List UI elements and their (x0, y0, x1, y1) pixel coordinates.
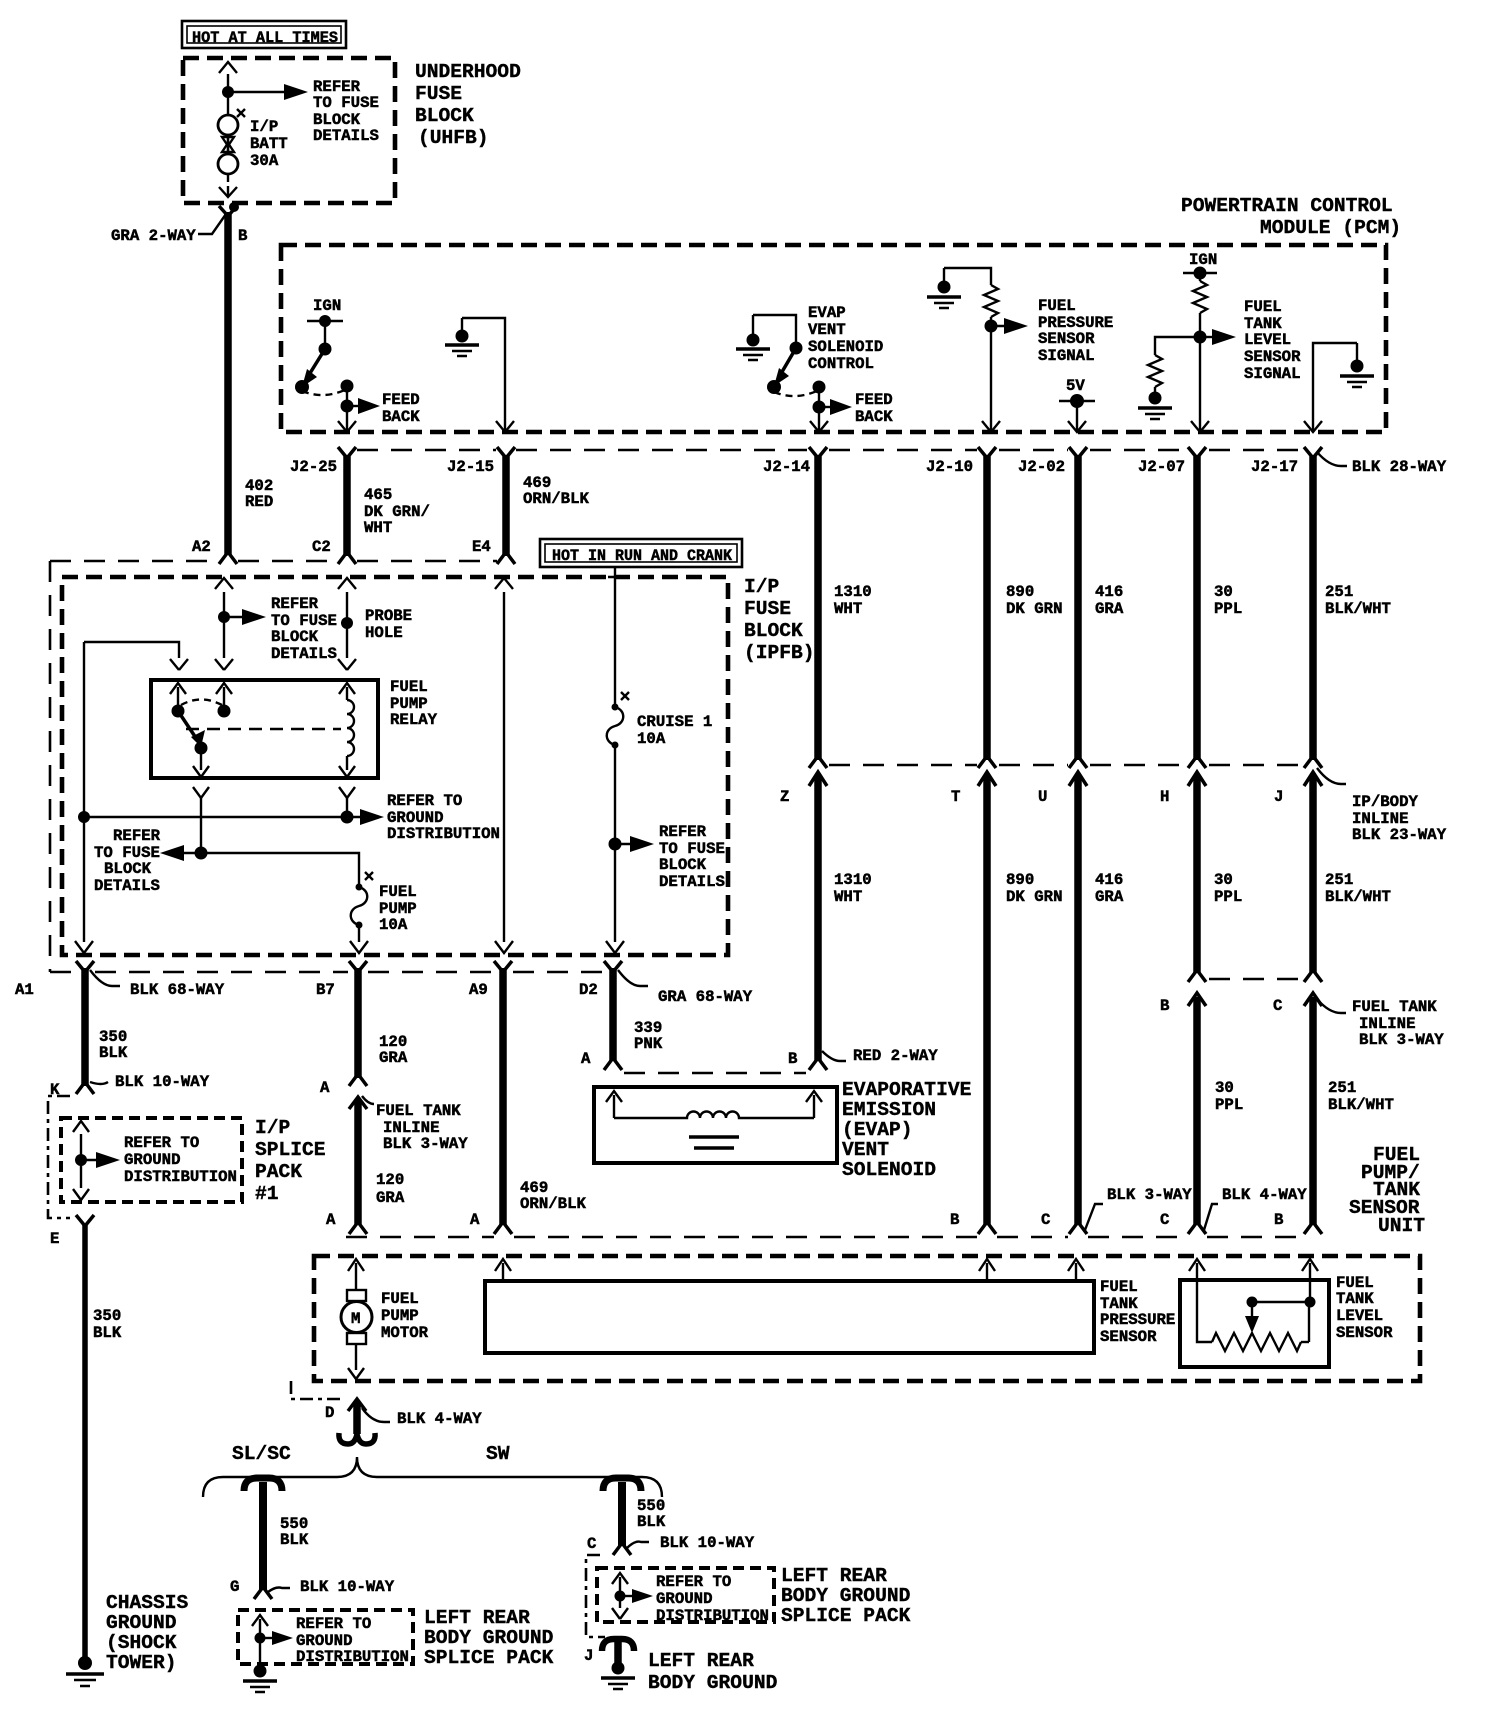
svg-text:FUEL: FUEL (390, 678, 428, 696)
text refer to fuse block details (UHFB) (313, 78, 379, 145)
wire to fuel pump fuse (201, 853, 359, 885)
level sensor resistor element (1197, 1282, 1309, 1351)
wire J2-14 output to PCM edge (810, 413, 828, 432)
svg-text:EVAPORATIVE: EVAPORATIVE (842, 1079, 971, 1101)
text LEFT REAR BODY GROUND SPLICE PACK (right) (781, 1565, 911, 1627)
svg-text:TO FUSE: TO FUSE (313, 94, 379, 112)
text BLK 10-WAY with leader (K) (90, 1073, 210, 1091)
wire 890 DK GRN (inline T to pump unit) (978, 772, 996, 1234)
connector row A2/C2/E4 dashed line (50, 560, 497, 563)
wire motor ground leg (348, 1344, 364, 1379)
svg-text:TANK: TANK (1336, 1290, 1374, 1308)
text PROBE HOLE (365, 607, 412, 642)
svg-text:H: H (1160, 788, 1169, 806)
wire 469 ORN/BLK (A9 to pump unit) (494, 961, 512, 1234)
svg-text:BLK 3-WAY: BLK 3-WAY (1107, 1186, 1192, 1204)
text CHASSIS GROUND (SHOCK TOWER) (106, 1592, 189, 1674)
svg-text:SOLENOID: SOLENOID (808, 338, 883, 356)
wire level sensor pin (30 PPL) arrow (1189, 1259, 1205, 1282)
underhood fuse block UHFB dashed box (183, 58, 395, 203)
text FUEL PRESSURE SENSOR SIGNAL (1038, 297, 1113, 365)
wire 120 GRA (B7 upper) (349, 961, 367, 1086)
svg-text:RELAY: RELAY (390, 711, 438, 729)
svg-text:FUSE: FUSE (415, 83, 462, 105)
svg-text:PRESSURE: PRESSURE (1100, 1311, 1175, 1329)
wire J2-15 ground leg (462, 318, 514, 432)
wire 402 RED from UHFB to A2 (219, 206, 237, 564)
svg-text:TOWER): TOWER) (106, 1652, 177, 1674)
node splice pack junction (75, 1154, 87, 1166)
svg-text:BLK 68-WAY: BLK 68-WAY (130, 981, 225, 999)
wire pressure sensor pin (890) arrow (979, 1259, 995, 1281)
ground inside PCM (EVAP driver) (736, 315, 770, 360)
text 120 GRA (lower) (376, 1171, 405, 1207)
level sensor wiper (1245, 1282, 1316, 1342)
connector row pump unit dashed (346, 1236, 1303, 1239)
svg-text:30A: 30A (250, 152, 279, 170)
text BLK 4-WAY with leader (pump unit) (1204, 1186, 1307, 1230)
powertrain control module PCM dashed box (281, 245, 1386, 432)
text refer to fuse block details (A2) (271, 595, 337, 663)
svg-text:HOLE: HOLE (365, 624, 403, 642)
text BLK 10-WAY with leader (G) (268, 1578, 395, 1596)
text FUEL TANK LEVEL SENSOR (1336, 1274, 1393, 1342)
svg-text:350: 350 (93, 1307, 121, 1325)
svg-text:BLK 4-WAY: BLK 4-WAY (1222, 1186, 1307, 1204)
text REFER TO FUSE BLOCK DETAILS (relay output) (94, 827, 161, 895)
node fuel pressure sensor signal junction (985, 317, 998, 333)
svg-text:FEED: FEED (855, 391, 893, 409)
svg-text:REFER: REFER (659, 823, 707, 841)
svg-text:BLK 28-WAY: BLK 28-WAY (1352, 458, 1447, 476)
svg-text:D: D (325, 1404, 334, 1422)
text 30 PPL (lower) (1215, 1079, 1243, 1114)
svg-text:120: 120 (376, 1171, 404, 1189)
svg-text:REFER TO: REFER TO (387, 792, 462, 810)
wire ground distribution horizontal (84, 816, 347, 818)
svg-text:251: 251 (1328, 1079, 1356, 1097)
svg-text:BLK 3-WAY: BLK 3-WAY (1359, 1031, 1444, 1049)
svg-text:RED 2-WAY: RED 2-WAY (853, 1047, 938, 1065)
node 5V supply tick (1059, 394, 1095, 408)
node fuse feed junction (195, 847, 208, 860)
svg-text:MOTOR: MOTOR (381, 1324, 429, 1342)
text refer to fuse block details (cruise) (659, 823, 725, 891)
svg-text:T: T (951, 788, 960, 806)
node B pin of GRA 2-WAY (229, 202, 248, 245)
svg-text:REFER TO: REFER TO (656, 1573, 731, 1591)
text FUEL PUMP 10A (379, 883, 417, 934)
svg-text:U: U (1038, 788, 1047, 806)
svg-text:FUSE: FUSE (744, 598, 791, 620)
wire 339 PNK (D2 to EVAP solenoid A) (604, 961, 622, 1070)
I/P fuse block IPFB dashed box (62, 577, 728, 955)
svg-text:BLK: BLK (637, 1513, 666, 1531)
svg-text:BLK/WHT: BLK/WHT (1325, 888, 1391, 906)
text 1310 WHT (upper) (834, 583, 872, 618)
wire BLK 4-way stub (D) (339, 1399, 375, 1444)
wire UHFB feed vertical (219, 62, 237, 197)
connector row fuel tank inline 3-way dashed (right) (1209, 978, 1303, 981)
svg-text:M: M (351, 1310, 360, 1328)
svg-text:ORN/BLK: ORN/BLK (520, 1195, 586, 1213)
text 416 GRA (middle) (1095, 871, 1124, 906)
ground inside PCM (J2-15 driver) (445, 318, 479, 356)
text BLK 3-WAY with leader (pump unit) (1085, 1186, 1192, 1230)
text GRA 2-WAY connector label (111, 214, 226, 245)
connector body edge left (vertical long dash) (49, 561, 52, 972)
wire 469 ORN/BLK through IPFB (495, 578, 513, 953)
svg-text:GRA: GRA (1095, 600, 1124, 618)
text BLK 4-WAY with leader (D) (362, 1408, 482, 1428)
svg-text:C: C (1273, 997, 1282, 1015)
svg-text:BLK 10-WAY: BLK 10-WAY (660, 1534, 755, 1552)
wire J2-07 output to PCM edge (1191, 343, 1209, 432)
wire refer-to-ground arrow (347, 809, 384, 825)
svg-text:MODULE (PCM): MODULE (PCM) (1260, 217, 1401, 239)
text FUEL PUMP MOTOR (381, 1290, 429, 1342)
text 350 BLK (upper) (99, 1028, 128, 1062)
wire 890 DK GRN (J2-10 to inline T) (978, 447, 996, 768)
svg-text:SENSOR: SENSOR (1100, 1328, 1157, 1346)
svg-text:A9: A9 (469, 981, 488, 999)
wire 30 PPL (lower to pump unit) (1188, 993, 1206, 1234)
svg-text:A1: A1 (15, 981, 34, 999)
text 30 PPL (middle) (1214, 871, 1242, 906)
svg-text:BLK: BLK (93, 1324, 122, 1342)
svg-text:CHASSIS: CHASSIS (106, 1592, 189, 1614)
svg-text:DK GRN: DK GRN (1006, 888, 1062, 906)
svg-text:890: 890 (1006, 871, 1034, 889)
svg-text:FUEL: FUEL (1100, 1278, 1138, 1296)
text 251 BLK/WHT (upper) (1325, 583, 1391, 618)
svg-text:5V: 5V (1066, 377, 1085, 395)
svg-text:J: J (1274, 788, 1283, 806)
svg-text:WHT: WHT (834, 888, 862, 906)
svg-text:IGN: IGN (313, 297, 341, 315)
svg-text:SPLICE: SPLICE (255, 1139, 326, 1161)
svg-text:GROUND: GROUND (656, 1590, 712, 1608)
svg-text:GRA: GRA (379, 1049, 408, 1067)
svg-text:VENT: VENT (808, 321, 846, 339)
wire A2 feed inside IPFB (215, 578, 233, 670)
text FUEL TANK LEVEL SENSOR SIGNAL (1244, 298, 1301, 383)
svg-text:C: C (1041, 1211, 1050, 1229)
svg-text:I/P: I/P (250, 118, 278, 136)
wire 30 PPL (inline H to fuel tank inline) (1188, 772, 1206, 982)
svg-text:POWERTRAIN CONTROL: POWERTRAIN CONTROL (1181, 195, 1393, 217)
text 120 GRA (upper) (379, 1033, 408, 1067)
svg-text:BLK/WHT: BLK/WHT (1328, 1096, 1394, 1114)
svg-text:(IPFB): (IPFB) (744, 642, 815, 664)
EVAP solenoid pins (arrows up) (606, 1091, 822, 1118)
UHFB module name text (415, 61, 521, 149)
label box HOT AT ALL TIMES (182, 21, 346, 48)
svg-text:BLK 10-WAY: BLK 10-WAY (300, 1578, 395, 1596)
svg-text:PUMP: PUMP (381, 1307, 419, 1325)
svg-text:BLK: BLK (99, 1044, 128, 1062)
svg-text:EVAP: EVAP (808, 304, 846, 322)
wire splice internal (left rear SW) (612, 1573, 653, 1619)
text REFER TO GROUND DISTRIBUTION (splice pack) (124, 1134, 237, 1186)
label box HOT IN RUN AND CRANK (540, 539, 742, 567)
wire fuel tank level sensor signal arrow (1200, 329, 1236, 345)
svg-text:D2: D2 (579, 981, 598, 999)
svg-text:SPLICE PACK: SPLICE PACK (781, 1605, 911, 1627)
wire 30 PPL (J2-07 to inline H) (1188, 447, 1206, 768)
svg-text:BLOCK: BLOCK (104, 860, 152, 878)
svg-text:J2-14: J2-14 (763, 458, 810, 476)
wire relay switched output leg (193, 787, 209, 853)
circuit breaker I/P BATT 30A (218, 109, 245, 174)
relay internal dashed link (186, 728, 341, 730)
svg-text:J2-25: J2-25 (290, 458, 337, 476)
node UHFB junction (222, 86, 234, 98)
svg-text:CRUISE 1: CRUISE 1 (637, 713, 712, 731)
wire cruise fuse output (614, 745, 616, 844)
wire splice pack internal (73, 1121, 89, 1200)
svg-text:SL/SC: SL/SC (232, 1443, 291, 1465)
svg-text:J2-10: J2-10 (926, 458, 973, 476)
svg-text:J2-02: J2-02 (1018, 458, 1065, 476)
svg-text:WHT: WHT (834, 600, 862, 618)
text REFER TO GROUND DISTRIBUTION (IPFB) (387, 792, 500, 843)
text FUEL PUMP/ TANK SENSOR UNIT (1349, 1144, 1425, 1237)
connector row BLK 68-WAY / GRA 68-WAY dashed line (50, 971, 604, 974)
wire refer-arrow (cruise) (615, 836, 654, 852)
svg-text:VENT: VENT (842, 1139, 889, 1161)
text pin A2 C2 E4 (192, 538, 491, 556)
text FUEL TANK PRESSURE SENSOR (1100, 1278, 1175, 1346)
svg-text:DISTRIBUTION: DISTRIBUTION (656, 1607, 769, 1625)
svg-text:BACK: BACK (855, 408, 893, 426)
svg-text:E4: E4 (472, 538, 491, 556)
wire 416 GRA (J2-02 to inline U) (1069, 447, 1087, 768)
svg-text:SENSOR: SENSOR (1038, 330, 1095, 348)
text 1310 WHT (middle) (834, 871, 872, 906)
svg-text:HOT AT ALL TIMES: HOT AT ALL TIMES (192, 29, 338, 47)
text FUEL TANK INLINE BLK 3-WAY with leader (right) (1317, 998, 1444, 1049)
svg-text:DK GRN: DK GRN (1006, 600, 1062, 618)
svg-text:890: 890 (1006, 583, 1034, 601)
fuel pump/tank sensor unit dashed box (314, 1256, 1420, 1381)
svg-text:BLOCK: BLOCK (659, 856, 707, 874)
connector bracket D (dash-dot) (291, 1381, 345, 1399)
relay switch contacts (172, 700, 231, 718)
wire 416 GRA (inline U to pump unit) (1069, 772, 1087, 1234)
svg-text:SIGNAL: SIGNAL (1244, 365, 1300, 383)
svg-text:J2-15: J2-15 (447, 458, 494, 476)
svg-text:BODY GROUND: BODY GROUND (424, 1627, 553, 1649)
svg-text:SPLICE PACK: SPLICE PACK (424, 1647, 554, 1669)
svg-text:REFER TO: REFER TO (124, 1134, 199, 1152)
text 890 DK GRN (upper) (1006, 583, 1062, 618)
svg-text:J: J (584, 1647, 593, 1665)
svg-text:C: C (1160, 1211, 1169, 1229)
svg-text:PPL: PPL (1214, 600, 1242, 618)
svg-text:LEVEL: LEVEL (1336, 1307, 1383, 1325)
svg-text:CONTROL: CONTROL (808, 355, 874, 373)
svg-text:30: 30 (1214, 871, 1233, 889)
svg-text:(SHOCK: (SHOCK (106, 1632, 177, 1654)
text BLK 10-WAY with leader (C) (627, 1534, 755, 1552)
wire 251 BLK/WHT (inline J to fuel tank inline) (1304, 772, 1322, 982)
connector bracket C to J (dash-dot) (586, 1555, 605, 1637)
svg-text:30: 30 (1214, 583, 1233, 601)
transistor driver switch (EVAP vent solenoid) (753, 315, 826, 396)
svg-text:PROBE: PROBE (365, 607, 412, 625)
svg-text:IGN: IGN (1189, 251, 1217, 269)
svg-text:30: 30 (1215, 1079, 1234, 1097)
svg-text:RED: RED (245, 493, 273, 511)
ground chassis (shock tower) (66, 1656, 104, 1686)
svg-text:10A: 10A (637, 730, 666, 748)
wire A1 riser down left side (83, 642, 85, 942)
wire cruise to D2 edge (606, 844, 624, 953)
text J2 pin labels (290, 458, 1298, 476)
text 890 DK GRN (middle) (1006, 871, 1062, 906)
svg-text:ORN/BLK: ORN/BLK (523, 490, 589, 508)
text CRUISE 1 10A (637, 713, 712, 748)
node fuel tank level sensor signal junction (1194, 331, 1207, 344)
svg-text:G: G (230, 1578, 239, 1596)
svg-text:A: A (581, 1050, 591, 1068)
text EVAP VENT SOLENOID CONTROL (808, 304, 883, 373)
svg-text:BLK: BLK (280, 1531, 309, 1549)
svg-text:SENSOR: SENSOR (1336, 1324, 1393, 1342)
svg-text:A: A (470, 1211, 480, 1229)
wire level sensor pin (251) arrow (1302, 1259, 1318, 1282)
text POWERTRAIN CONTROL MODULE (PCM) (1181, 195, 1401, 239)
motor fuel pump M (341, 1290, 372, 1344)
svg-text:465: 465 (364, 486, 392, 504)
svg-text:BLOCK: BLOCK (415, 105, 474, 127)
wire A1 edge arrow (75, 941, 93, 953)
svg-text:BATT: BATT (250, 135, 288, 153)
svg-text:I/P: I/P (255, 1117, 290, 1139)
svg-text:FUEL TANK: FUEL TANK (1352, 998, 1437, 1016)
wire motor feed (arrow up to A) (348, 1259, 364, 1290)
svg-text:251: 251 (1325, 871, 1353, 889)
node cruise refer junction (609, 838, 622, 851)
svg-text:IP/BODY: IP/BODY (1352, 793, 1418, 811)
ground left rear body (SL/SC) (243, 1665, 277, 1693)
text 465 DK GRN/WHT (364, 486, 430, 537)
wire 120 GRA (lower to pump unit) (349, 1097, 367, 1234)
text 251 BLK/WHT (lower) (1328, 1079, 1394, 1114)
text FUEL PUMP RELAY (390, 678, 438, 729)
node feedback junction (left) (341, 386, 354, 413)
svg-text:10A: 10A (379, 916, 408, 934)
svg-text:A2: A2 (192, 538, 211, 556)
svg-text:LEVEL: LEVEL (1244, 331, 1291, 349)
node probe hole (341, 617, 353, 629)
svg-text:416: 416 (1095, 583, 1123, 601)
relay contact pins (arrows into relay) (170, 683, 355, 705)
svg-text:B: B (238, 227, 248, 245)
svg-text:HOT IN RUN AND CRANK: HOT IN RUN AND CRANK (552, 547, 733, 565)
node ground distribution junction left (78, 811, 90, 823)
resistor fuel tank level sensor feed (1193, 273, 1207, 337)
text FEED BACK (left) (382, 391, 420, 426)
svg-text:REFER TO: REFER TO (296, 1615, 371, 1633)
svg-text:SIGNAL: SIGNAL (1038, 347, 1094, 365)
resistor level sensor pull-down to ground (1148, 337, 1200, 392)
svg-text:BLK 4-WAY: BLK 4-WAY (397, 1410, 482, 1428)
svg-text:LEFT REAR: LEFT REAR (648, 1650, 754, 1672)
ground distribution dashed box (left rear splice pack SL/SC) (238, 1610, 413, 1664)
fuse CRUISE 1 10A (607, 692, 629, 749)
text EVAPORATIVE EMISSION (EVAP) VENT SOLENOID (842, 1079, 971, 1181)
fuel tank pressure sensor box (485, 1281, 1094, 1353)
svg-text:SW: SW (486, 1443, 510, 1465)
text 30 PPL (upper) (1214, 583, 1242, 618)
wire CRUISE fuse feed (608, 567, 622, 705)
svg-text:BODY GROUND: BODY GROUND (781, 1585, 910, 1607)
svg-text:BLK 23-WAY: BLK 23-WAY (1352, 826, 1447, 844)
wire 1310 WHT (inline Z to EVAP B) (809, 772, 827, 1070)
svg-text:EMISSION: EMISSION (842, 1099, 936, 1121)
svg-text:PPL: PPL (1214, 888, 1242, 906)
text 469 ORN/BLK (lower) (520, 1179, 586, 1213)
svg-text:DISTRIBUTION: DISTRIBUTION (124, 1168, 237, 1186)
wire pressure sensor pin (416) arrow (1068, 1259, 1084, 1281)
svg-text:FUEL TANK: FUEL TANK (376, 1102, 461, 1120)
svg-text:C2: C2 (312, 538, 331, 556)
text LEFT REAR BODY GROUND (648, 1650, 777, 1694)
svg-text:DETAILS: DETAILS (94, 877, 160, 895)
wire pressure sensor pin (469) arrow (495, 1259, 511, 1281)
svg-text:Z: Z (780, 788, 789, 806)
text 550 BLK (left) (280, 1515, 309, 1549)
node A2 refer junction (218, 611, 230, 623)
evaporative emission vent solenoid box (594, 1087, 837, 1163)
svg-text:1310: 1310 (834, 583, 872, 601)
svg-text:BLK 10-WAY: BLK 10-WAY (115, 1073, 210, 1091)
wire 350 BLK (E to chassis ground) (76, 1215, 94, 1658)
text GRA 68-WAY with leader (618, 970, 753, 1006)
node IGN tick (level sensor) (1183, 267, 1217, 280)
connector row IP/BODY inline 23-way dashed (829, 764, 1303, 767)
node ground distribution junction right (341, 811, 354, 824)
svg-text:SOLENOID: SOLENOID (842, 1159, 936, 1181)
wire 251 BLK/WHT (J2-17 to inline J) (1304, 447, 1322, 768)
svg-text:BLK/WHT: BLK/WHT (1325, 600, 1391, 618)
text 339 PNK (634, 1019, 663, 1053)
ground distribution dashed box (left rear splice pack SW) (597, 1568, 774, 1622)
wire 465 DK GRN/WHT (J2-25 to C2) (338, 447, 356, 564)
text REFER TO GROUND DISTRIBUTION (left rear SW) (656, 1573, 769, 1625)
svg-text:SENSOR: SENSOR (1244, 348, 1301, 366)
svg-text:BLK 3-WAY: BLK 3-WAY (383, 1135, 468, 1153)
text 402 RED (245, 477, 273, 511)
text FUEL TANK INLINE BLK 3-WAY with leader (362, 1096, 468, 1153)
svg-text:B: B (788, 1050, 798, 1068)
wire C2 probe inside IPFB (338, 578, 356, 670)
fuse FUEL PUMP 10A (351, 872, 373, 929)
svg-text:#1: #1 (255, 1183, 279, 1205)
text LEFT REAR BODY GROUND SPLICE PACK (left) (424, 1607, 554, 1669)
connector row J2 (PCM 28-way) dashed line (357, 449, 1303, 452)
svg-text:LEFT REAR: LEFT REAR (781, 1565, 887, 1587)
wire 550 BLK left branch (244, 1478, 282, 1599)
text BLK 68-WAY with leader (90, 970, 225, 999)
relay coil (339, 700, 355, 777)
EVAP solenoid coil (614, 1112, 814, 1149)
svg-text:(EVAP): (EVAP) (842, 1119, 913, 1141)
svg-text:BACK: BACK (382, 408, 420, 426)
svg-text:GROUND: GROUND (124, 1151, 180, 1169)
